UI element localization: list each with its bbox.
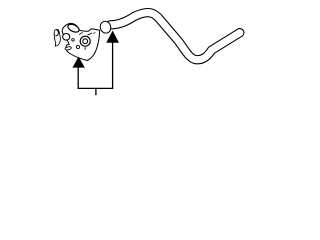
bracket crescent	[63, 34, 70, 41]
leader lines	[78, 42, 112, 95]
bracket small line	[84, 47, 86, 50]
bracket face fold	[79, 32, 82, 34]
hose outer outline	[110, 13, 240, 60]
bracket silhouette	[62, 23, 100, 60]
bracket hole 2 inner ring	[83, 39, 88, 44]
bracket hole 1	[67, 23, 81, 34]
arrow to hose	[107, 31, 118, 42]
bracket tiny hole	[72, 39, 75, 42]
bracket small loop	[76, 45, 79, 48]
bracket hole 2	[80, 36, 90, 46]
bracket flap curl	[55, 30, 58, 36]
bracket small oval	[65, 46, 72, 50]
bracket beak inner edge	[87, 33, 95, 35]
bracket flap	[54, 29, 60, 46]
arrow to bracket	[73, 57, 84, 67]
hose inner white	[110, 13, 240, 60]
hose open-end ellipse	[99, 20, 112, 35]
